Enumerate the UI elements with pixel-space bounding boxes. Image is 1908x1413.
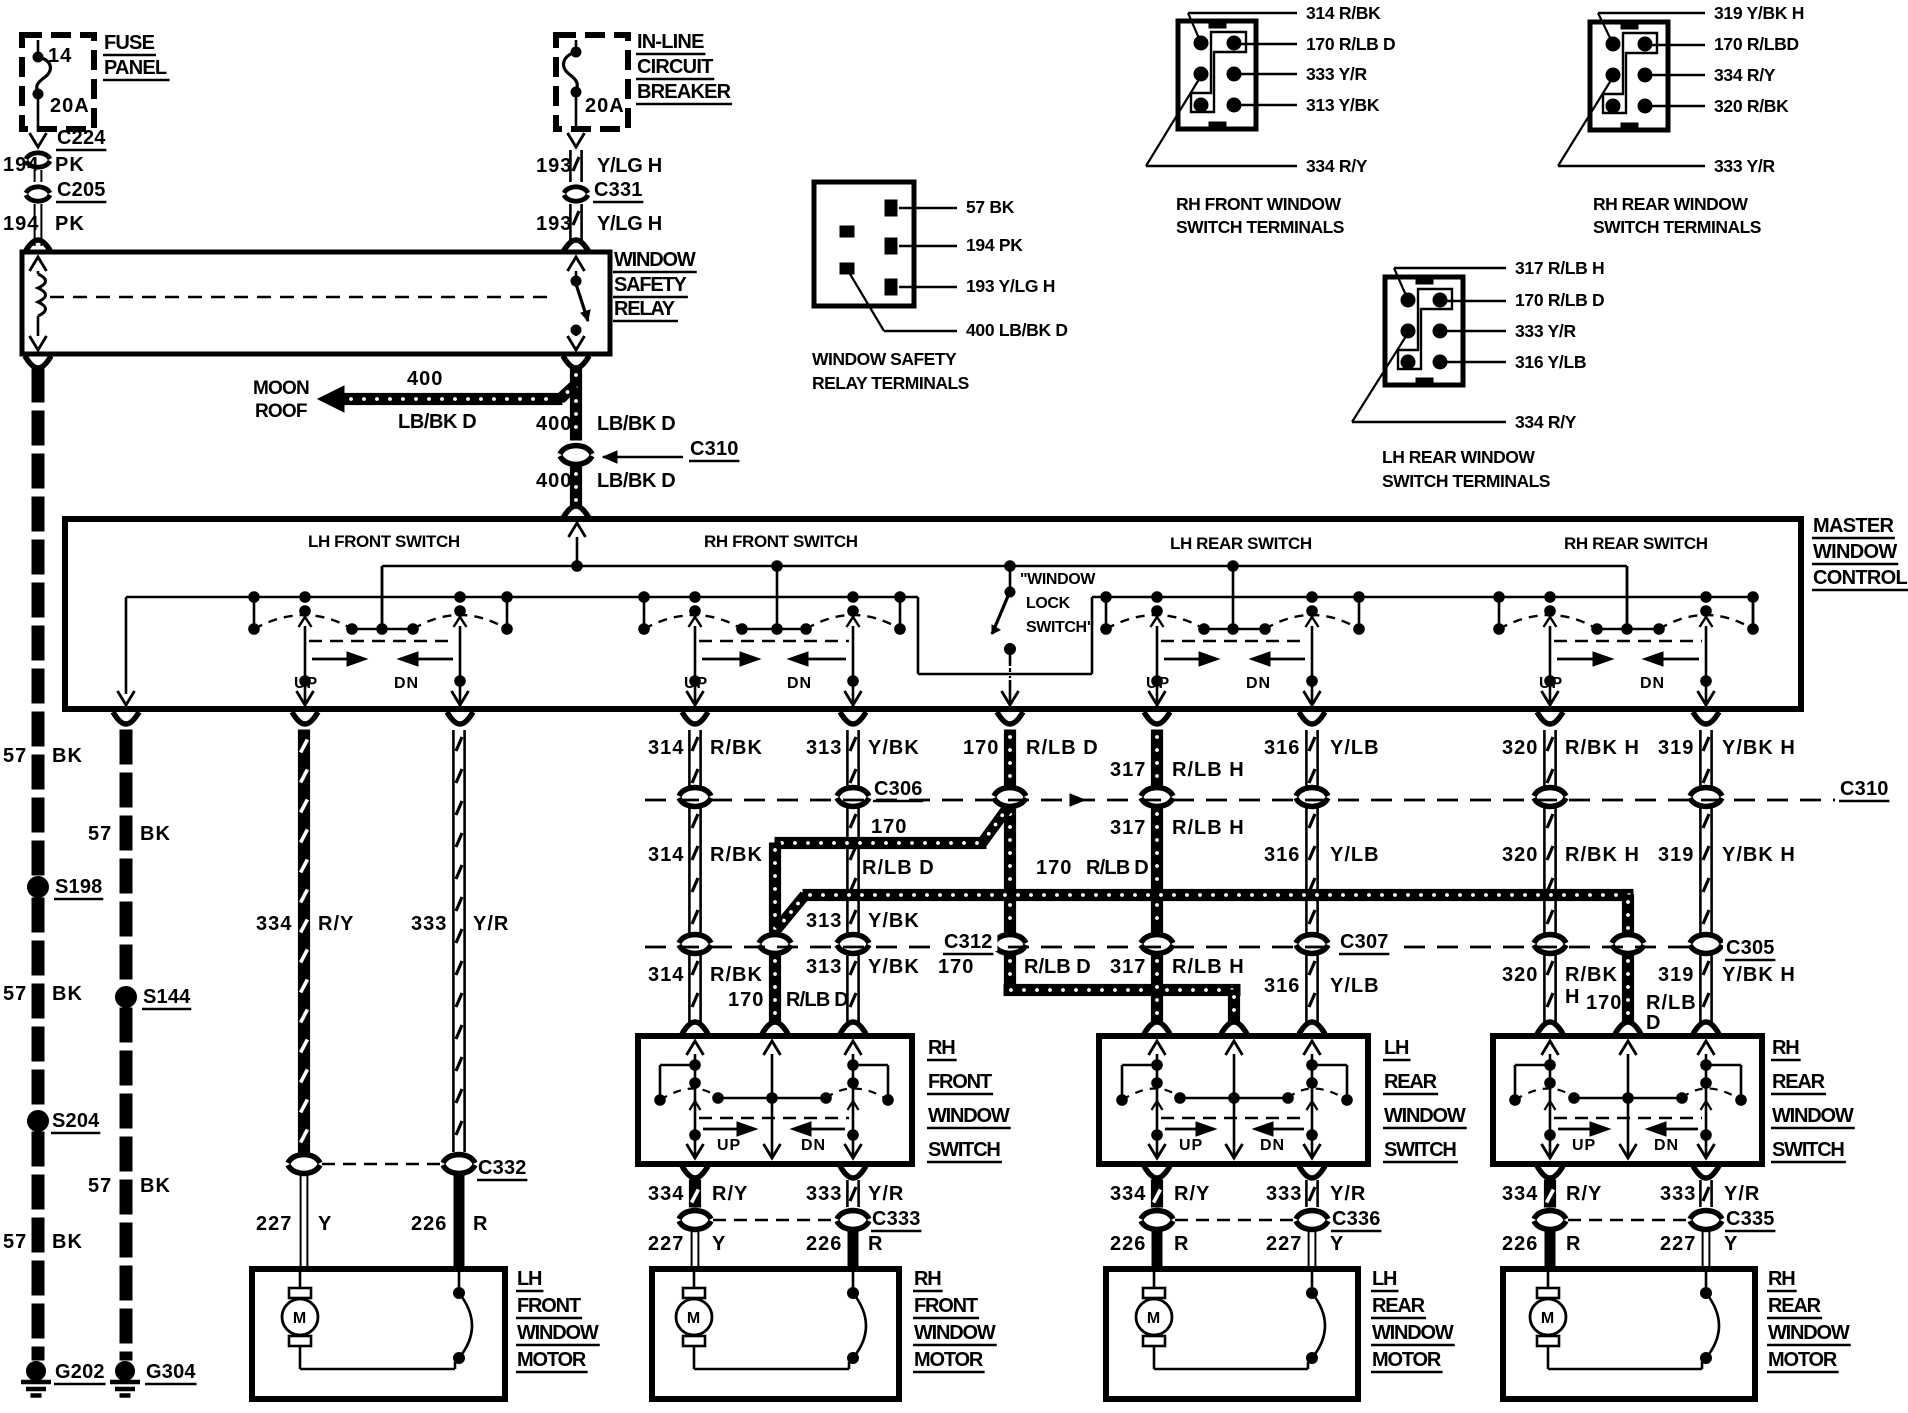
LH front switch module DN arrow [394,652,453,692]
svg-text:170 R/LB D: 170 R/LB D [1306,34,1395,54]
svg-text:Y/LG H: Y/LG H [597,213,662,235]
wire 170 R/LB D bus to RH rear switch [777,857,1634,934]
svg-text:R/LB D: R/LB D [1026,737,1099,759]
svg-text:R: R [1566,1233,1581,1255]
svg-text:MOTOR: MOTOR [914,1349,984,1371]
connector C331 [564,179,643,202]
ground wire 57 BK to G202 [32,1132,44,1360]
label LH [516,1268,543,1291]
svg-text:334 R/Y: 334 R/Y [1306,156,1368,176]
connector C305 [1534,935,1779,960]
svg-text:Y/BK H: Y/BK H [1722,844,1796,866]
svg-text:BK: BK [140,1175,171,1197]
splice S198 [28,876,104,899]
wire 313 Y/BK segment 3 [806,954,920,1034]
svg-text:C332: C332 [478,1157,527,1179]
svg-text:LH: LH [1372,1268,1397,1290]
svg-text:R/LB D: R/LB D [786,989,848,1011]
svg-text:S144: S144 [143,986,191,1008]
svg-text:227: 227 [648,1233,684,1255]
svg-text:R/BK: R/BK [710,844,763,866]
svg-text:C205: C205 [57,179,106,201]
svg-text:LB/BK D: LB/BK D [597,470,675,492]
LH rear switch module UP arrow [1146,652,1219,692]
svg-text:PANEL: PANEL [104,57,167,79]
svg-text:C310: C310 [1840,778,1889,800]
wire 320 R/BK H segment 1 [1502,730,1640,787]
svg-text:170: 170 [1586,992,1622,1014]
wire 313 Y/BK segment 1 [806,730,920,787]
LH rear window motor motor M [1136,1272,1308,1369]
svg-text:FRONT: FRONT [928,1071,992,1093]
svg-text:227: 227 [1660,1233,1696,1255]
svg-text:C307: C307 [1340,931,1389,953]
svg-text:333 Y/R: 333 Y/R [1714,156,1775,176]
svg-text:BK: BK [52,745,83,767]
moon roof feed branch [318,368,575,433]
svg-text:57: 57 [88,823,112,845]
RH rear wire 333 Y/R [1660,1166,1760,1207]
svg-text:400: 400 [536,470,572,492]
svg-text:R: R [473,1213,488,1235]
svg-text:Y: Y [318,1213,332,1235]
svg-text:316: 316 [1264,975,1300,997]
wire 193 Y/LG H breaker to C331 [536,133,662,182]
ground wire 57 BK to G304 [120,1008,132,1360]
svg-text:UP: UP [717,1137,741,1154]
svg-text:Y/BK: Y/BK [868,910,920,932]
svg-text:170: 170 [963,737,999,759]
svg-text:Y/BK H: Y/BK H [1722,737,1796,759]
svg-text:313 Y/BK: 313 Y/BK [1306,95,1380,115]
svg-text:R/LB: R/LB [1646,992,1697,1014]
svg-text:Y/BK: Y/BK [868,737,920,759]
label SWITCH [1771,1139,1846,1162]
window lock switch [992,566,1019,705]
master window control box [65,519,1801,709]
LH front window motor motor M [282,1272,455,1369]
svg-text:57: 57 [88,1175,112,1197]
RH front wire 333 Y/R [806,1166,904,1207]
svg-text:DN: DN [801,1137,826,1154]
label MOTOR [1371,1349,1443,1372]
svg-text:R/Y: R/Y [1174,1183,1210,1205]
svg-text:LB/BK D: LB/BK D [398,411,476,433]
RH rear window motor internal switch [1701,1272,1720,1364]
RH front switch module feed bar [737,566,812,634]
RH rear window switch DN arrow [1646,1122,1698,1154]
LH rear switch module DN arrow [1246,652,1305,692]
ground wire 57 BK (from master control) [120,730,132,979]
RH front window switch DN arrow [791,1122,845,1154]
RH front switch module pole outputs [687,617,862,705]
RH front window switch UP arrow [703,1122,757,1154]
label FRONT [516,1295,582,1318]
LH rear wire 334 R/Y [1110,1166,1210,1207]
RH rear switch module pole contacts [1494,592,1759,635]
relay terminal leader 57 BK [899,197,1015,217]
switch module title LH REAR SWITCH [1170,534,1312,553]
svg-text:57: 57 [3,1231,27,1253]
svg-text:57: 57 [3,983,27,1005]
label WINDOW [516,1322,600,1345]
svg-text:C335: C335 [1726,1208,1775,1230]
svg-text:LH FRONT SWITCH: LH FRONT SWITCH [308,532,460,551]
svg-text:Y/LG H: Y/LG H [597,155,662,177]
svg-text:SWITCH": SWITCH" [1026,619,1094,636]
connector C306 [679,778,1328,806]
wire 400 LB/BK D relay to C310 [536,368,675,440]
svg-text:RH REAR WINDOW: RH REAR WINDOW [1593,194,1748,214]
wire 170 R/LB D to RH rear switch pin [1586,954,1697,1034]
relay internal dashed link [50,296,552,299]
wire 316 Y/LB segment 3 [1264,954,1380,1034]
svg-text:193: 193 [536,155,572,177]
feed bus wire [382,561,1627,629]
RH rear wire 227 Y [1660,1232,1738,1266]
label MOTOR [1767,1349,1839,1372]
label WINDOW [1767,1322,1851,1345]
svg-text:319: 319 [1658,844,1694,866]
svg-text:319 Y/BK H: 319 Y/BK H [1714,3,1804,23]
svg-text:R/LB D: R/LB D [1086,857,1148,879]
svg-text:334 R/Y: 334 R/Y [1714,65,1776,85]
LH front switch module pole contacts [249,592,513,635]
svg-text:UP: UP [1179,1137,1203,1154]
LH rear wire 227 Y [1266,1232,1344,1266]
svg-text:Y/LB: Y/LB [1330,844,1380,866]
svg-text:SWITCH: SWITCH [928,1139,1000,1161]
svg-text:DN: DN [787,675,812,692]
svg-text:R/BK: R/BK [710,737,763,759]
svg-text:MOTOR: MOTOR [1372,1349,1442,1371]
svg-text:M: M [1147,1310,1161,1327]
wire 319 Y/BK H segment 3 [1658,954,1796,1034]
svg-text:C305: C305 [1726,937,1775,959]
window safety relay terminals diagram [814,182,914,306]
svg-text:LH: LH [1384,1037,1409,1059]
svg-text:313: 313 [806,956,842,978]
ground wire 57 BK (left) [32,368,44,875]
svg-text:WINDOW: WINDOW [914,1322,996,1344]
svg-text:170: 170 [1036,857,1072,879]
wire 314 R/BK segment 2 [648,807,763,934]
svg-text:BK: BK [52,983,83,1005]
svg-text:14: 14 [48,45,72,67]
svg-text:MOTOR: MOTOR [1768,1349,1838,1371]
label REAR [1383,1071,1438,1094]
svg-text:RH FRONT WINDOW: RH FRONT WINDOW [1176,194,1342,214]
wire 316 Y/LB segment 2 [1264,807,1380,934]
svg-text:BK: BK [52,1231,83,1253]
connector row C312 dashed [645,946,1700,949]
switch module title RH REAR SWITCH [1564,534,1708,553]
LH rear window switch UP arrow [1165,1122,1216,1154]
svg-text:WINDOW SAFETY: WINDOW SAFETY [812,349,957,369]
svg-text:WINDOW: WINDOW [928,1105,1010,1127]
master control feed entry [569,523,586,566]
svg-text:Y/R: Y/R [473,913,509,935]
svg-text:226: 226 [1110,1233,1146,1255]
RH rear window motor motor M [1530,1272,1702,1369]
wire 333 Y/R (LH front) [411,730,509,1152]
svg-text:PK: PK [55,213,85,235]
svg-text:R/LB H: R/LB H [1172,956,1245,978]
svg-text:400: 400 [536,413,572,435]
svg-text:317: 317 [1110,817,1146,839]
RH rear switch module UP arrow [1539,652,1613,692]
svg-text:SWITCH TERMINALS: SWITCH TERMINALS [1593,217,1761,237]
wire 319 Y/BK H segment 2 [1658,807,1796,934]
svg-text:R/BK H: R/BK H [1565,737,1640,759]
LH front switch module mechanical link [309,640,456,643]
LH rear window switch box [1099,1036,1368,1164]
in-line circuit breaker 20A [556,35,628,132]
connector C205 [26,179,106,202]
fuse panel F14 20A [22,35,94,132]
svg-text:WINDOW: WINDOW [1813,541,1897,563]
LH rear switch module mechanical link [1161,640,1308,643]
label LH [1383,1037,1410,1060]
svg-text:334: 334 [1502,1183,1538,1205]
wire 317 R/LB H segment 1 [1110,730,1245,787]
wire 314 R/BK segment 3 [648,954,763,1034]
svg-text:WINDOW: WINDOW [1768,1322,1850,1344]
wire 313 Y/BK segment 2 [806,807,920,934]
RH front window motor internal switch [848,1272,867,1364]
RH rear switch module wiper arcs [1499,615,1753,629]
svg-text:Y/LB: Y/LB [1330,975,1380,997]
label WINDOW SAFETY RELAY [613,249,697,321]
wire 170 R/LB D to RH front switch pin [728,954,848,1034]
svg-text:R/Y: R/Y [712,1183,748,1205]
svg-text:R: R [868,1233,883,1255]
RH front wire 226 R [806,1232,883,1266]
svg-text:Y: Y [1724,1233,1738,1255]
svg-text:RELAY: RELAY [614,298,676,320]
svg-text:BREAKER: BREAKER [637,81,732,103]
svg-text:317: 317 [1110,759,1146,781]
svg-text:320: 320 [1502,964,1538,986]
svg-text:C312: C312 [944,931,993,953]
svg-text:320: 320 [1502,844,1538,866]
svg-text:SWITCH: SWITCH [1384,1139,1456,1161]
output bus wire [126,597,1753,694]
svg-text:333 Y/R: 333 Y/R [1515,321,1576,341]
wire 194 PK [3,154,85,182]
RH rear window motor box [1503,1269,1755,1399]
wire 194 PK to relay [3,204,85,252]
LH rear switch module pole outputs [1149,617,1321,705]
switch module title RH FRONT SWITCH [704,532,858,551]
label LH [1371,1268,1398,1291]
connector C310 (row) [1534,778,1893,806]
labels 57 BK left wire [3,745,83,1253]
label SWITCH [1383,1139,1458,1162]
label WINDOW [913,1322,997,1345]
label WINDOW [927,1105,1011,1128]
RH front switch module UP arrow [684,652,760,692]
wire 319 Y/BK H segment 1 [1658,730,1796,787]
RH rear window switch box [1493,1036,1762,1164]
svg-text:C331: C331 [594,179,643,201]
RH rear switch module feed bar [1592,566,1665,634]
svg-text:317: 317 [1110,956,1146,978]
wire 320 R/BK H segment 3 [1502,954,1618,1034]
RH front wire 334 R/Y [648,1166,748,1207]
wire 317 R/LB H segment 3 [1110,954,1245,1034]
svg-text:WINDOW: WINDOW [1384,1105,1466,1127]
svg-text:FRONT: FRONT [517,1295,581,1317]
relay terminal leader 194 PK [899,235,1023,255]
svg-text:Y/R: Y/R [868,1183,904,1205]
label FUSE PANEL [103,32,170,80]
label WINDOW [1383,1105,1467,1128]
svg-text:333: 333 [806,1183,842,1205]
svg-text:LB/BK D: LB/BK D [597,413,675,435]
connector C312 [679,931,1026,954]
svg-text:S204: S204 [52,1110,100,1132]
RH front window switch box [638,1036,912,1164]
svg-text:SWITCH: SWITCH [1772,1139,1844,1161]
svg-text:320: 320 [1502,737,1538,759]
svg-text:R/LB D: R/LB D [862,857,935,879]
label REAR [1371,1295,1426,1318]
wire 334 R/Y (LH front) [256,730,354,1152]
svg-text:226: 226 [1502,1233,1538,1255]
svg-text:20A: 20A [585,95,625,117]
svg-text:CONTROL: CONTROL [1813,567,1907,589]
svg-text:Y: Y [712,1233,726,1255]
svg-text:313: 313 [806,910,842,932]
wire 317 R/LB H segment 2 [1110,807,1245,934]
svg-text:REAR: REAR [1768,1295,1822,1317]
svg-text:H: H [1565,986,1580,1008]
label RH [1771,1037,1801,1060]
svg-text:20A: 20A [50,95,90,117]
svg-text:FUSE: FUSE [104,32,155,54]
svg-text:MOTOR: MOTOR [517,1349,587,1371]
label IN-LINE CIRCUIT BREAKER [636,31,732,104]
svg-text:S198: S198 [55,876,103,898]
svg-text:RELAY TERMINALS: RELAY TERMINALS [812,373,969,393]
label RH [927,1037,957,1060]
connector C224 [26,127,106,167]
relay switch contact [568,257,591,350]
svg-text:LH REAR SWITCH: LH REAR SWITCH [1170,534,1312,553]
svg-text:R/BK H: R/BK H [1565,844,1640,866]
svg-text:Y/BK: Y/BK [868,956,920,978]
RH rear window switch UP arrow [1558,1122,1610,1154]
label RH [1767,1268,1797,1291]
wire 227 Y (LH front) [256,1176,332,1266]
RH rear switch module DN arrow [1640,652,1699,692]
LH rear window switch DN arrow [1253,1122,1304,1154]
RH front wire 227 Y [648,1232,726,1266]
svg-text:SAFETY: SAFETY [614,274,688,296]
svg-text:M: M [687,1310,701,1327]
label REAR [1771,1071,1826,1094]
wire 57 BK from relay [25,356,51,875]
svg-text:314 R/BK: 314 R/BK [1306,3,1381,23]
svg-text:M: M [293,1310,307,1327]
RH front switch module wiper arcs [644,615,900,629]
svg-text:PK: PK [55,154,85,176]
LH rear switch module pole contacts [1101,592,1365,635]
svg-text:MASTER: MASTER [1813,515,1895,537]
svg-text:WINDOW: WINDOW [1372,1322,1454,1344]
svg-text:R/LB H: R/LB H [1172,759,1245,781]
svg-text:193 Y/LG H: 193 Y/LG H [966,276,1055,296]
master control pin connectors [113,712,1719,724]
wire 194 PK fuse to C224 [30,133,47,147]
LH front switch module feed bar [347,566,419,634]
connector C310 [560,438,739,464]
svg-text:C333: C333 [872,1208,921,1230]
svg-text:314: 314 [648,737,684,759]
svg-text:RH REAR SWITCH: RH REAR SWITCH [1564,534,1708,553]
svg-text:DN: DN [1260,1137,1285,1154]
relay terminal leader 193 Y/LG H [899,276,1055,296]
label WINDOW [1371,1322,1455,1345]
svg-text:314: 314 [648,844,684,866]
connector C333 [679,1208,921,1231]
svg-text:G304: G304 [146,1361,196,1383]
svg-text:C224: C224 [57,127,106,149]
svg-text:M: M [1541,1310,1555,1327]
svg-text:WINDOW: WINDOW [614,249,696,271]
svg-text:333: 333 [1660,1183,1696,1205]
svg-text:227: 227 [1266,1233,1302,1255]
svg-text:WINDOW: WINDOW [1772,1105,1854,1127]
wire 314 R/BK segment 1 [648,730,763,787]
svg-text:FRONT: FRONT [914,1295,978,1317]
svg-text:226: 226 [411,1213,447,1235]
LH front window motor internal switch [454,1272,473,1364]
LH rear switch module feed bar [1199,566,1271,634]
wire 170 R/LB D segment 2 [1004,807,1015,934]
wire 170 R/LB D jog to LH rear switch [938,954,1247,1034]
RH rear switch module mechanical link [1554,640,1702,643]
wire 320 R/BK H segment 2 [1502,807,1640,934]
ground wire 57 BK continues [32,898,44,1104]
svg-text:194: 194 [3,213,39,235]
svg-text:334: 334 [648,1183,684,1205]
svg-text:ROOF: ROOF [255,401,307,422]
svg-text:227: 227 [256,1213,292,1235]
connector C307 [1141,931,1393,954]
svg-text:333: 333 [1266,1183,1302,1205]
svg-text:"WINDOW: "WINDOW [1020,571,1096,588]
svg-text:316: 316 [1264,844,1300,866]
svg-text:316: 316 [1264,737,1300,759]
svg-text:C310: C310 [690,438,739,460]
label WINDOW LOCK SWITCH [1020,571,1096,636]
splice S204 [28,1110,101,1133]
svg-text:CIRCUIT: CIRCUIT [637,56,713,78]
wire 400 LB/BK D to master control [536,467,675,518]
svg-text:C336: C336 [1332,1208,1381,1230]
relay terminal leader 400 LB/BK D [850,274,1068,340]
svg-text:R/LB H: R/LB H [1172,817,1245,839]
wire 170 R/LB D branch to RH front switch [769,806,1009,934]
svg-text:DN: DN [1640,675,1665,692]
label REAR [1767,1295,1822,1318]
svg-text:226: 226 [806,1233,842,1255]
RH rear switch module pole outputs [1542,617,1715,705]
RH front switch module DN arrow [787,652,846,692]
LH rear window motor box [1106,1269,1358,1399]
